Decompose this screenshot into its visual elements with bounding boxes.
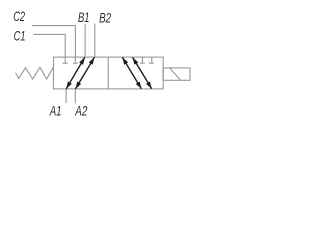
wire B1 drop (84, 24, 86, 57)
blocked port stub (right cell, first) (141, 57, 143, 63)
svg-text:B1: B1 (78, 9, 90, 25)
blocked port stub (right cell, second) (151, 57, 153, 63)
svg-text:A1: A1 (49, 102, 62, 118)
flow arrow A2-B2 (left cell) (76, 57, 95, 88)
spring (left return spring) (16, 67, 54, 79)
blocked port foot (right cell, first) (140, 62, 145, 64)
svg-text:C2: C2 (13, 8, 25, 24)
flow arrow 2 (right cell) (133, 57, 152, 88)
solenoid box (163, 68, 190, 80)
valve body outline (54, 57, 164, 89)
svg-text:A2: A2 (75, 103, 88, 119)
blocked port C2 foot (73, 62, 78, 64)
svg-text:C1: C1 (14, 27, 26, 43)
wire A2 drop (74, 89, 76, 103)
svg-text:B2: B2 (99, 9, 111, 25)
flow arrow 1 (right cell) (122, 57, 141, 88)
wire C2 leader (horizontal + drop to port) (32, 26, 75, 63)
position divider (107, 57, 109, 89)
flow arrow A1-B1 (left cell) (66, 57, 85, 88)
solenoid diagonal (170, 68, 181, 80)
wire C1 leader (horizontal + drop to port) (34, 34, 66, 63)
wire B2 drop (94, 24, 96, 58)
blocked port C1 foot (63, 62, 68, 64)
wire A1 drop (65, 89, 67, 103)
blocked port foot (right cell, second) (149, 62, 154, 64)
